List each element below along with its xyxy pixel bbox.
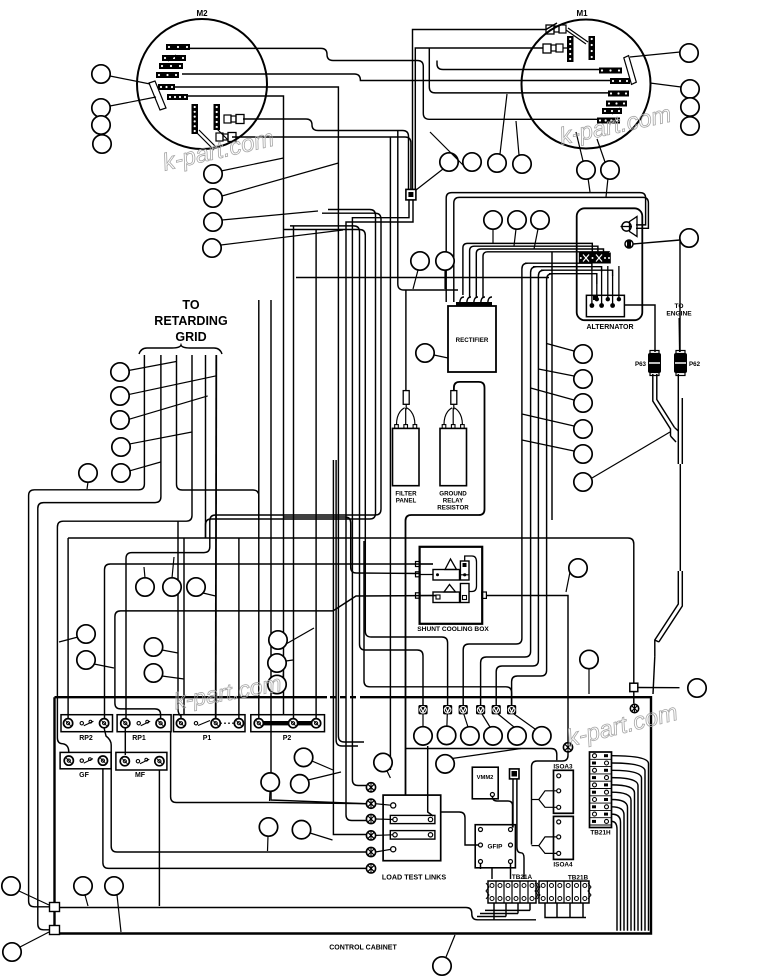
svg-text:TB21H: TB21H [590,830,611,837]
svg-text:M2: M2 [196,9,208,18]
hex terminal TG [630,704,638,712]
wire junction out A [352,200,409,786]
svg-text:MF: MF [135,772,146,779]
wire shunt right to ISOA bus [486,596,568,743]
wire J3 to hex terminal [633,692,635,704]
callout balloon [437,714,455,745]
alternator ground bolt [621,217,638,237]
svg-text:RECTIFIER: RECTIFIER [456,337,489,344]
wire GF-right to hex6 [103,768,366,868]
wire RP1-right drop [171,731,366,804]
callout balloon [574,432,670,491]
wire alternator feed h2 [533,267,602,272]
alternator pin box [586,295,624,316]
wire P2-left riser [258,300,260,718]
wire thick drop to links [428,746,433,816]
M1 terminal block T4 [606,101,627,107]
svg-text:P62: P62 [689,361,701,368]
switch MF [116,752,167,779]
callout balloon [112,438,130,456]
svg-text:RP1: RP1 [132,735,146,742]
svg-text:RELAY: RELAY [443,498,464,505]
alternator terminal strip [579,253,611,264]
M1 terminal block T2 [610,78,630,84]
junction block JB1 [510,769,520,779]
M2 pin strip B [214,104,221,130]
M2 brush rod [149,81,166,110]
wire M1-T1 feed [437,61,599,70]
svg-text:FILTER: FILTER [395,491,417,498]
svg-text:ALTERNATOR: ALTERNATOR [586,324,633,331]
wire alternator feed h3 [541,270,613,276]
callout balloon [144,638,178,656]
svg-text:GF: GF [79,772,89,779]
retarding grid pointer wires [129,361,217,471]
callout balloon [111,363,129,381]
wire to M1-T3 [429,48,608,93]
wire alternator bundle feeds [522,263,553,279]
wire junction to M1 plug1 [413,23,558,190]
wire alternator feed h1 [525,263,592,269]
callout balloon [268,654,293,672]
M2 terminal block T4 [156,72,179,78]
wire M2 plug1 to junction [243,119,409,190]
rectifier box [448,306,496,372]
shunt element upper [433,559,469,580]
M1 pin strip A [567,36,574,62]
callout balloon [411,252,429,289]
wire P1-right riser [238,538,240,718]
callout balloon [92,65,150,84]
wire junction out B [346,200,413,821]
TO ENGINE lead [678,318,681,352]
shunt cooling box [417,547,489,633]
wire bus A [29,355,145,907]
load test pin leads [376,804,393,852]
M1 pin strip B [589,36,596,60]
wire RP1-left to MF-left [124,728,126,755]
wire rectifier phase 3 [476,249,603,297]
svg-text:TO: TO [674,303,683,310]
svg-text:SHUNT COOLING BOX: SHUNT COOLING BOX [417,626,489,633]
callout balloon [597,139,619,179]
relay GFIP [475,825,515,868]
M1 balloon stems [588,178,608,197]
svg-text:CONTROL CABINET: CONTROL CABINET [329,945,397,952]
control cabinet box [55,697,652,951]
alternator pins [590,296,622,308]
callout balloon [498,714,526,745]
M2 terminal block T3 [159,63,183,69]
M1 terminal block T3 [608,91,629,97]
svg-text:LOAD TEST LINKS: LOAD TEST LINKS [382,873,446,882]
callout balloon [269,628,314,649]
load test link bar 2 [390,831,435,840]
wire alternator B+ to P63 [624,305,655,352]
callout balloon [522,440,592,463]
TO ENGINE label [666,303,692,318]
wire junction to M1 plug2 [415,48,543,190]
cabinet top terminals [418,705,516,714]
svg-text:RP2: RP2 [79,735,93,742]
M2 strip-to-plug leads [196,128,228,150]
callout balloon [414,714,432,745]
svg-text:RETARDING: RETARDING [154,314,227,328]
callout balloon [261,773,279,801]
callout balloon [436,252,454,289]
wire terminal T2 feed [284,230,448,706]
wire rectifier phase 4 [483,252,609,297]
connector P62 [674,351,701,376]
wire M2 plug2 to junction [232,137,411,189]
callout balloon [650,80,699,98]
wire TB21A bus lines [477,910,530,916]
motor M2 [137,9,267,149]
callout balloon [484,211,502,243]
M1 connector plug P1 [546,25,566,34]
wire mid to T6 [364,541,512,705]
wire bottom bus [60,908,537,920]
wire vertical 390 [389,137,391,770]
callout balloon [433,935,455,975]
wire P1-left riser [178,521,181,718]
switch RP1 [117,715,171,742]
callout balloon [3,932,49,961]
callout balloon [59,625,95,643]
alternator internal wires [592,266,619,305]
callout balloon [416,344,448,362]
svg-text:k-part.com: k-part.com [172,670,284,714]
switch P2 [251,715,325,742]
callout balloon [482,714,502,745]
switch P1 [174,715,246,742]
svg-text:GFIP: GFIP [488,844,504,851]
cable junction Y [671,428,679,443]
callout balloon [538,369,592,388]
svg-text:M1: M1 [576,9,588,18]
wire ISOA bus [532,752,569,845]
M1 terminal block T6 [597,118,620,124]
cable below P62 [678,374,682,464]
callout balloon [105,877,123,932]
wire P2-mid riser [293,226,295,718]
callout balloon [74,877,92,906]
svg-text:GRID: GRID [175,330,206,344]
callout balloon [688,679,706,697]
callout balloon [204,211,318,231]
callout balloon [531,211,549,249]
wire P1 box riser [183,538,185,714]
svg-text:TB21B: TB21B [568,875,589,882]
wire J3 to callout [638,687,680,689]
callout balloon [681,117,699,135]
wire GFIP left lead [441,812,479,845]
callout balloon [294,748,333,770]
svg-text:ISOA4: ISOA4 [553,862,573,869]
M1 terminal block T1 [599,68,622,74]
ground relay resistor [440,391,467,486]
watermark 1 [160,125,277,177]
wire bus B [38,355,161,930]
wire bus D [205,355,207,538]
callout balloon [204,158,284,183]
isolation amplifier ISOA4 [532,816,574,868]
filter panel label [395,491,417,505]
wire rectifier AC loop inner [454,197,649,302]
M2 terminal block T1 [166,44,190,50]
cable P62 lower [679,464,681,571]
wire RP2-left riser [67,538,69,718]
filter panel [393,391,420,486]
wire rectifier AC loop outer [446,193,645,302]
M2 terminal block T6 [167,94,188,100]
callout balloon [522,414,592,438]
callout balloon [566,559,587,592]
wire M2-T6 drop [188,96,284,714]
junction square J1 [50,903,60,912]
wire bus F shunt pin1 [105,564,434,718]
callout balloon [488,94,507,172]
load test links label [382,873,446,882]
callout balloon [203,230,343,257]
cable hockey stick [655,571,683,656]
load test link bar 1 [390,815,435,823]
switch GF [60,752,111,779]
watermark 2 [557,101,673,151]
wire rectifier phase 1 [463,243,592,295]
callout balloon [580,650,598,694]
shunt pin leads [420,564,469,596]
wire rectifier phase 2 [470,246,598,297]
wire M2-T4 to M1-T2 [182,74,610,81]
load test hex terminals [366,783,375,873]
wire VMM2 pin lead [492,797,512,828]
wire M2-T5 drop [175,87,364,742]
wire to cabinet corner [653,656,655,694]
callout balloon [111,411,129,429]
wire bus C [57,355,192,752]
wire retarding 3 wrap [177,355,259,520]
terminal block TB21A [486,874,538,903]
wire filter riser [405,290,407,390]
callout balloon [292,821,332,841]
svg-text:P1: P1 [203,735,212,742]
callout balloon [111,387,129,405]
callout balloon [144,664,184,682]
svg-text:GROUND: GROUND [439,491,467,498]
wire terminal T1 feed [290,226,423,705]
wire alternator feed h4 [549,274,597,284]
relay VMM2 [472,767,498,799]
wire terminal T4 feed [481,273,531,706]
alternator field pin [625,240,633,248]
callout balloon [259,818,277,851]
wire JB1 drops [513,779,524,879]
svg-text:P2: P2 [283,735,292,742]
shunt element lower [433,584,469,603]
wire TB21B bus [545,903,586,918]
callout balloon [92,97,156,117]
wire field feed long [296,277,549,279]
M2 pin strip A [192,104,199,134]
wire fan pair inner [204,213,381,552]
wire RP2-right drop [104,728,366,852]
isolation amplifier ISOA3 [532,764,574,814]
callout balloon [204,163,339,207]
switch RP2 [61,715,113,742]
svg-text:k-part.com: k-part.com [564,699,681,753]
M1 plug-to-strip leads [563,28,588,48]
load test links box [383,795,441,861]
wire M2-T1 to M1-T6 [189,48,597,119]
svg-text:ISOA3: ISOA3 [553,764,573,771]
callout balloon [436,749,521,774]
connector P63 [635,351,661,376]
svg-text:RESISTOR: RESISTOR [437,505,469,512]
svg-text:TB21A: TB21A [512,874,533,881]
M2 connector plug P1 [224,115,244,124]
callout balloon [2,877,49,905]
wire bundle drop D [333,460,366,835]
wire bundle spare 1 [551,252,553,520]
wire RP1 staple [115,700,161,718]
wire MF-right drop [158,770,160,906]
wire GFIP to TB21A [481,864,511,880]
watermark 3 [172,670,284,714]
shunt left pins [416,562,421,599]
watermark 4 [564,699,681,753]
callout balloon [630,44,698,62]
wire ground relay wrap [406,382,485,795]
callout balloon [514,714,551,745]
wire links-ISOA link [406,749,557,761]
wire terminal T6 feed [512,280,547,706]
callout balloon [77,651,114,669]
terminal block TB21H [590,752,612,837]
retarding grid brace [139,345,222,354]
M2 connector plug P2 [216,133,236,142]
TO RETARDING GRID label [154,298,227,344]
wire P2 riser 2 [271,300,366,804]
ground relay resistor label [437,491,469,512]
callout balloon [681,98,699,116]
wire bus G shunt pin3 [115,596,436,701]
callout balloon [576,132,595,179]
callout balloon [187,578,216,596]
wire bus E [126,553,204,718]
svg-text:TO: TO [182,298,199,312]
M1 connector plug P2 [543,44,563,53]
M1 brush rod [624,56,637,85]
terminal block TB21B [537,875,591,904]
junction square J2 [50,926,60,935]
callout balloon [531,388,593,412]
wire shunt pin2 feed [284,517,420,574]
callout balloon [513,121,531,173]
cable below P63 [653,374,675,436]
M1 terminal block T5 [602,108,622,114]
wire P62 drop from field line [679,241,681,352]
callout balloon [112,464,130,482]
callout balloon [136,567,154,596]
wire terminal T3 feed [463,269,522,705]
wire P2-right riser [315,230,317,718]
callout balloon [163,557,181,596]
wire terminal T5 feed [496,276,538,705]
svg-text:VMM2: VMM2 [477,775,494,781]
M2 terminal block T2 [162,55,186,61]
callout balloon [374,753,392,778]
wire fan pair outer [206,210,376,539]
shunt right pin [482,592,487,598]
wire TB21H fan [612,756,649,931]
load test pins [391,803,396,852]
callout balloon [79,464,97,489]
svg-text:PANEL: PANEL [396,498,417,505]
wire alternator field to callout [633,240,680,244]
motor M1 [522,9,651,149]
svg-text:P63: P63 [635,361,647,368]
callout balloon [508,211,526,246]
cable junction block [406,189,416,200]
wire bus y538 [68,538,634,683]
M2 terminal block T5 [158,84,175,90]
hex terminal HS [563,743,572,752]
junction square J3 [630,683,638,691]
callout balloon [547,344,593,364]
wire TB21A stubs [494,903,530,920]
callout balloon [92,116,110,134]
rectifier top hooks [456,297,492,306]
callout balloon [416,153,458,190]
callout balloon [93,135,111,153]
wire bundle drop C [336,460,358,746]
wire rectifier DC feed [398,131,458,290]
alternator box [577,208,643,331]
callout balloon [291,772,341,793]
callout balloon [680,229,698,247]
callout balloon [461,714,479,745]
callout balloon [430,132,481,171]
shunt internal link [465,556,477,592]
wire retarding 6 drop [215,355,218,718]
callout balloon [268,672,286,694]
